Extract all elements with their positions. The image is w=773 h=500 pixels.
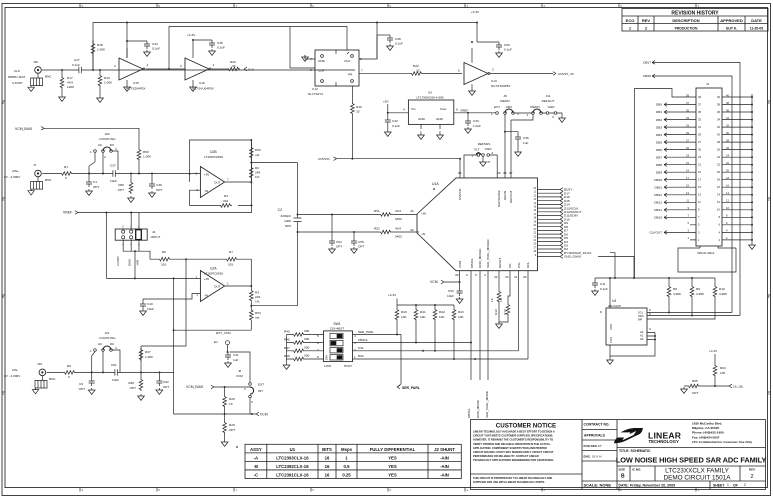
svg-text:R6: R6 [67, 364, 71, 368]
connector J1 [686, 82, 729, 246]
svg-text:VCC: VCC [344, 59, 351, 63]
svg-text:LOW NOISE HIGH SPEED SAR ADC F: LOW NOISE HIGH SPEED SAR ADC FAMILY [616, 456, 767, 465]
svg-text:0: 0 [68, 375, 70, 379]
svg-text:CNVSTL: CNVSTL [318, 157, 330, 161]
capacitor C9 [79, 372, 95, 394]
wire U15 out to U16 [146, 68, 185, 70]
svg-text:R41: R41 [420, 310, 426, 314]
jumper J21 coupling [90, 331, 120, 372]
svg-text:+3.3V: +3.3V [471, 10, 480, 14]
wire RDL pin 30 [527, 271, 529, 359]
svg-text:R22: R22 [413, 64, 419, 68]
svg-text:2: 2 [197, 293, 199, 297]
svg-text:A2: A2 [640, 330, 644, 334]
resistor R5 [158, 250, 171, 267]
svg-text:U1: U1 [290, 447, 296, 452]
svg-text:+5V: +5V [383, 100, 390, 104]
svg-text:DB2: DB2 [656, 118, 662, 122]
resistor R64 [713, 364, 726, 386]
resistor R50 1.00K [137, 148, 152, 174]
svg-text:R50: R50 [143, 150, 149, 154]
svg-text:10uF: 10uF [147, 307, 154, 311]
svg-text:13: 13 [698, 193, 701, 197]
svg-text:CSL: CSL [517, 262, 521, 268]
svg-text:A0: A0 [640, 337, 644, 341]
svg-text:VCM_BIAS: VCM_BIAS [186, 385, 204, 389]
svg-text:DB12: DB12 [654, 193, 662, 197]
svg-text:-A: -A [254, 455, 259, 460]
svg-text:R42: R42 [439, 310, 445, 314]
svg-text:OPT: OPT [79, 387, 85, 391]
svg-text:REFIN: REFIN [500, 99, 509, 103]
svg-text:VCM: VCM [430, 280, 438, 284]
resistor R48 [284, 354, 324, 361]
svg-text:REVISION HISTORY: REVISION HISTORY [671, 10, 719, 16]
svg-text:1206: 1206 [67, 85, 74, 89]
svg-text:AIN+: AIN+ [12, 169, 19, 173]
svg-text:VERIFY PROPER AND RELIABLE OPE: VERIFY PROPER AND RELIABLE OPERATION IN … [473, 442, 551, 446]
net label SER_PARL [397, 338, 401, 387]
svg-text:4: 4 [484, 273, 486, 277]
svg-text:AC: AC [98, 342, 103, 346]
svg-text:C51: C51 [111, 363, 117, 367]
svg-text:33: 33 [698, 118, 701, 122]
svg-text:DEMO CIRCUIT 1501A: DEMO CIRCUIT 1501A [663, 475, 731, 482]
svg-text:10uF: 10uF [112, 378, 119, 382]
svg-text:33: 33 [416, 69, 420, 73]
svg-text:NC7ST04P5X: NC7ST04P5X [491, 84, 510, 88]
svg-text:BNC: BNC [45, 178, 52, 182]
svg-text:TECHNOLOGY APPLICATIONS ENGINE: TECHNOLOGY APPLICATIONS ENGINEERING FOR … [473, 458, 554, 462]
net label CLK [244, 67, 247, 71]
svg-text:DB17: DB17 [643, 61, 651, 65]
svg-text:opt: opt [255, 153, 259, 157]
svg-text:2: 2 [750, 474, 753, 480]
svg-text:C9: C9 [79, 382, 83, 386]
wire U13 out CNVST_33 [490, 73, 553, 75]
svg-text:OPT: OPT [336, 245, 342, 249]
resistor R37 [139, 346, 154, 372]
wire CSL pin 31 [518, 271, 520, 351]
svg-text:CONTRACT NO.: CONTRACT NO. [584, 423, 610, 427]
svg-text:DB6: DB6 [656, 148, 662, 152]
svg-text:24LC025: 24LC025 [608, 304, 621, 308]
svg-text:RDL: RDL [526, 262, 530, 268]
resistor R51 [374, 209, 402, 221]
svg-text:J7: J7 [33, 163, 37, 167]
op-amp U2B LT1807CMS8 [196, 150, 230, 198]
svg-text:PD: PD [508, 263, 512, 268]
ground R17 [59, 95, 66, 101]
svg-text:LT1807CMS8: LT1807CMS8 [204, 155, 223, 159]
svg-text:4: 4 [213, 63, 215, 67]
wire VREF to J2 [78, 205, 252, 278]
capacitor C52 [156, 372, 169, 394]
jumper J11 REFOUT [515, 94, 566, 122]
svg-text:OPT: OPT [692, 391, 698, 395]
svg-text:5: 5 [196, 172, 198, 176]
resistor R28 [223, 387, 235, 414]
connector J16 BNC CLK [8, 60, 52, 91]
jumper J20 coupling [90, 132, 118, 170]
svg-text:R8: R8 [673, 287, 677, 291]
wire +IN line [106, 278, 200, 414]
svg-text:RESET: RESET [498, 258, 502, 268]
jumper J8 REFIN [491, 94, 519, 116]
capacitor C41 [225, 352, 239, 367]
resistor R50 opt feedback [250, 140, 261, 163]
svg-text:SDA: SDA [638, 314, 644, 318]
svg-text:C32: C32 [392, 119, 398, 123]
svg-text:NL17SZ74: NL17SZ74 [308, 92, 323, 96]
svg-text:R19: R19 [104, 76, 110, 80]
svg-text:10uF: 10uF [447, 294, 454, 298]
svg-text:1: 1 [727, 483, 729, 487]
connector J7 BNC AIN+ [4, 163, 52, 195]
wire R53 bottom [174, 329, 252, 331]
svg-text:DB9: DB9 [656, 170, 662, 174]
resistor R06 [118, 174, 135, 203]
svg-text:AIN-: AIN- [12, 368, 18, 372]
svg-text:C54: C54 [336, 240, 342, 244]
svg-text:LTC2391CLX-16: LTC2391CLX-16 [276, 473, 309, 478]
svg-text:-INPUT: -INPUT [150, 235, 160, 239]
ground U12 GND pin [305, 55, 315, 59]
svg-text:REV: REV [749, 468, 755, 472]
svg-text:OPT: OPT [156, 188, 162, 192]
svg-text:+3.3V: +3.3V [709, 349, 718, 353]
svg-text:27: 27 [698, 140, 701, 144]
resistor R43 [452, 305, 464, 359]
EEPROM U4 24LC025 [600, 299, 651, 345]
svg-text:32: 32 [494, 275, 498, 279]
svg-text:C37: C37 [110, 164, 116, 168]
svg-text:OB2CL: OB2CL [358, 338, 368, 342]
svg-text:2: 2 [492, 151, 494, 155]
wire R2 mid to C2 [251, 162, 297, 164]
svg-text:49.9: 49.9 [395, 227, 401, 231]
svg-text:-AIN: -AIN [440, 455, 449, 460]
wire top rail 1 [93, 23, 477, 71]
svg-text:0402: 0402 [395, 235, 402, 239]
svg-text:3: 3 [649, 327, 651, 331]
svg-text:1.00K: 1.00K [145, 355, 154, 359]
svg-text:A1: A1 [640, 334, 644, 338]
resistor R53 [250, 306, 261, 331]
svg-text:R52: R52 [374, 227, 380, 231]
svg-text:INT: INT [258, 389, 263, 393]
svg-text:23: 23 [698, 155, 701, 159]
svg-text:OPT: OPT [358, 245, 364, 249]
svg-text:VSS: VSS [609, 337, 613, 343]
bus ADC data out [538, 190, 561, 257]
svg-text:R06: R06 [118, 183, 124, 187]
svg-text:C55: C55 [358, 240, 364, 244]
svg-text:5: 5 [310, 68, 312, 72]
svg-text:33: 33 [232, 64, 236, 68]
svg-text:C1: C1 [93, 180, 97, 184]
svg-text:LT1790ACS6-4.096: LT1790ACS6-4.096 [416, 96, 443, 100]
svg-text:C11: C11 [600, 282, 606, 286]
svg-text:36: 36 [455, 273, 459, 277]
resistor R13 [499, 297, 510, 322]
svg-text:6: 6 [317, 341, 319, 345]
svg-text:C10: C10 [147, 302, 153, 306]
svg-text:1: 1 [90, 349, 92, 353]
svg-text:HOWEVER, IT REMAINS THE CUSTOM: HOWEVER, IT REMAINS THE CUSTOMER'S RESPO… [473, 438, 553, 442]
svg-text:OPT: OPT [130, 386, 136, 390]
wire VCM_BIAS to R50 [44, 128, 139, 148]
svg-text:R2: R2 [255, 166, 259, 170]
resistor R42 [433, 305, 445, 351]
wire R3 mid to C2 bottom [251, 305, 297, 307]
assembly options table [236, 444, 461, 478]
wire J1 pin39 to CNVST [635, 89, 691, 279]
jumper J6 VCM [230, 352, 265, 414]
resistor R6 [63, 364, 76, 379]
svg-text:OPT: OPT [93, 185, 99, 189]
svg-text:LTC23XXCLX FAMILY: LTC23XXCLX FAMILY [665, 468, 729, 475]
resistor R7 [225, 250, 238, 267]
svg-text:WP: WP [638, 318, 643, 322]
svg-text:R3: R3 [255, 291, 259, 295]
net label 16_18L [729, 384, 732, 388]
svg-text:EXT: EXT [494, 105, 500, 109]
svg-text:U13: U13 [491, 79, 497, 83]
svg-text:DB10: DB10 [654, 178, 662, 182]
svg-text:R49: R49 [356, 105, 362, 109]
svg-text:+3.3V: +3.3V [388, 293, 397, 297]
wire GND_MODE1 pin 5 [479, 271, 481, 380]
svg-text:1%: 1% [255, 300, 260, 304]
connector J18 BNC AIN- [4, 362, 56, 394]
svg-text:OPT: OPT [163, 385, 169, 389]
svg-text:30: 30 [717, 133, 720, 137]
resistor R19 [98, 70, 113, 96]
svg-text:7: 7 [317, 348, 319, 352]
svg-text:BNC: BNC [49, 377, 56, 381]
svg-text:1: 1 [354, 355, 356, 359]
wire U2B out [225, 181, 252, 183]
svg-text:15: 15 [698, 185, 701, 189]
svg-text:OPT: OPT [118, 188, 124, 192]
svg-text:4: 4 [147, 63, 149, 67]
wire R37 top [141, 259, 186, 346]
wire J2 to R5 [123, 240, 225, 278]
svg-text:SER_PARL_MODE: SER_PARL_MODE [485, 391, 489, 418]
svg-text:33: 33 [505, 275, 509, 279]
svg-text:OB2CL: OB2CL [470, 258, 474, 268]
svg-text:*: * [236, 446, 238, 452]
svg-text:GUY K.: GUY K. [726, 26, 738, 30]
resistor R22 [410, 64, 423, 75]
wire SW1 RDL [353, 358, 529, 360]
svg-text:R51: R51 [374, 209, 380, 213]
resistor R3 [250, 286, 261, 306]
wire D1/D0 drop to EEPROM rail [598, 253, 634, 278]
svg-text:16: 16 [325, 455, 330, 460]
wire REFSENSE pin 29 [490, 155, 498, 178]
svg-text:C27: C27 [74, 58, 80, 62]
svg-text:VREF: VREF [460, 109, 468, 113]
wire RESET pin 32 [498, 271, 500, 290]
svg-text:C39: C39 [156, 183, 162, 187]
wire J1 pin1 loop [678, 246, 736, 272]
svg-text:LTC2393CLX-16: LTC2393CLX-16 [276, 455, 309, 460]
svg-text:10: 10 [717, 208, 720, 212]
wire PD pin 33 [508, 271, 510, 303]
svg-text:300: 300 [304, 354, 309, 358]
svg-text:R7: R7 [229, 250, 233, 254]
svg-text:CIRCUIT BOARD LAYOUT MAY SIGNI: CIRCUIT BOARD LAYOUT MAY SIGNIFICANTLY A… [473, 450, 554, 454]
wire J7 FLT to ADC pin 35 [464, 155, 477, 178]
svg-text:32: 32 [717, 125, 720, 129]
svg-text:TITLE: SCHEMATIC: TITLE: SCHEMATIC [619, 449, 651, 453]
svg-text:301: 301 [228, 263, 233, 267]
svg-text:0.1uF: 0.1uF [217, 46, 225, 50]
capacitor C51 [111, 363, 120, 382]
svg-text:-IN: -IN [204, 189, 208, 193]
svg-text:R46: R46 [284, 338, 290, 342]
svg-text:U5: U5 [428, 91, 432, 95]
svg-text:300: 300 [304, 329, 309, 333]
capacitor C34 [127, 41, 160, 56]
wire U2B feedback box [190, 140, 252, 205]
capacitor C38 [377, 35, 403, 50]
svg-text:0.1uF: 0.1uF [504, 48, 512, 52]
switch SW1 219-4MST [317, 322, 356, 368]
svg-text:0.1uF: 0.1uF [600, 287, 608, 291]
svg-text:C53: C53 [448, 289, 454, 293]
resistor R52 [374, 227, 402, 239]
svg-text:BNC: BNC [45, 75, 52, 79]
svg-text:38: 38 [717, 102, 720, 106]
svg-text:1: 1 [90, 150, 92, 154]
svg-text:-C: -C [254, 473, 259, 478]
svg-text:U2B: U2B [210, 150, 217, 154]
svg-text:R48: R48 [284, 354, 290, 358]
svg-text:16: 16 [325, 464, 330, 469]
svg-text:VCM: VCM [458, 261, 462, 268]
svg-text:3: 3 [251, 400, 253, 404]
inverter U16 NC7SVU04P5X [180, 40, 215, 91]
svg-text:1630 McCarthy Blvd.: 1630 McCarthy Blvd. [692, 422, 722, 426]
svg-text:REFIN: REFIN [530, 105, 539, 109]
svg-text:4.99K: 4.99K [696, 292, 705, 296]
terminal E1 EXT_VCM [214, 331, 231, 352]
wire SW1 CSL [353, 350, 519, 352]
capacitor C36 [505, 132, 529, 157]
svg-text:R4: R4 [224, 194, 228, 198]
svg-text:SER_PARL_MODE0: SER_PARL_MODE0 [486, 239, 490, 268]
svg-text:30: 30 [523, 275, 527, 279]
svg-text:0.1uF: 0.1uF [392, 124, 400, 128]
svg-text:GUY H.: GUY H. [592, 455, 602, 459]
svg-text:DB14: DB14 [654, 208, 662, 212]
wire CLK input [42, 69, 355, 71]
svg-text:J20: J20 [105, 132, 110, 136]
svg-text:J18: J18 [37, 362, 42, 366]
svg-text:LTC2392CLX-16: LTC2392CLX-16 [276, 464, 309, 469]
svg-text:OB2CL: OB2CL [467, 408, 471, 418]
svg-text:ENG.: ENG. [584, 455, 592, 459]
svg-text:EXT_VCM: EXT_VCM [216, 331, 231, 335]
svg-text:301: 301 [223, 199, 228, 203]
svg-text:OF: OF [733, 484, 738, 488]
capacitor C50 [477, 42, 512, 57]
svg-text:2: 2 [354, 348, 356, 352]
wire VREF from U5 [454, 112, 496, 114]
svg-text:LT1807CMS8: LT1807CMS8 [204, 272, 223, 276]
svg-text:VCC: VCC [609, 323, 613, 330]
wire PR to R22 to U13 [423, 73, 462, 75]
svg-text:GND: GND [548, 105, 556, 109]
svg-text:43: 43 [410, 209, 414, 213]
svg-text:R43: R43 [458, 310, 464, 314]
svg-text:31: 31 [514, 275, 518, 279]
resistor R65 [684, 379, 729, 395]
header J2 INPUT [115, 226, 160, 247]
svg-text:29: 29 [497, 171, 501, 175]
svg-text:34: 34 [458, 171, 462, 175]
svg-text:VCM: VCM [236, 374, 243, 378]
resistor R45 [284, 329, 324, 336]
svg-text:3: 3 [552, 115, 554, 119]
svg-text:AC: AC [98, 143, 103, 147]
svg-text:24: 24 [717, 155, 720, 159]
svg-text:PRODUCTION: PRODUCTION [675, 26, 698, 30]
svg-text:CSL: CSL [358, 346, 364, 350]
svg-text:J8: J8 [503, 94, 507, 98]
svg-text:GND: GND [418, 117, 426, 121]
svg-text:CNVSTL: CNVSTL [458, 188, 462, 200]
wire EEPROM rail [595, 278, 715, 308]
svg-text:LINEAR TECHNOLOGY HAS MADE A B: LINEAR TECHNOLOGY HAS MADE A BEST EFFORT… [473, 430, 555, 434]
svg-text:3201S-40G1: 3201S-40G1 [697, 251, 715, 255]
svg-text:4.99K: 4.99K [719, 292, 728, 296]
svg-text:Fax: (408)434-0507: Fax: (408)434-0507 [692, 435, 720, 439]
svg-text:25: 25 [698, 148, 701, 152]
svg-text:J2 SHUNT: J2 SHUNT [434, 447, 455, 452]
svg-text:C41: C41 [233, 353, 239, 357]
svg-text:CLKOUT: CLKOUT [649, 231, 662, 235]
svg-text:J11: J11 [546, 94, 551, 98]
svg-text:DB5: DB5 [656, 140, 662, 144]
svg-text:U2A: U2A [210, 267, 217, 271]
svg-text:PR: PR [348, 73, 353, 77]
svg-text:TECHNOLOGY: TECHNOLOGY [649, 439, 679, 444]
svg-text:+3.3V: +3.3V [187, 33, 196, 37]
svg-text:DATE: DATE [751, 18, 762, 23]
svg-text:CNVST_33: CNVST_33 [558, 72, 574, 76]
svg-text:39: 39 [698, 95, 701, 99]
svg-text:OUT: OUT [214, 181, 221, 185]
resistor R17 [60, 70, 74, 95]
svg-text:CLR: CLR [318, 69, 325, 73]
svg-text:18: 18 [717, 178, 720, 182]
svg-text:SW1: SW1 [333, 322, 340, 326]
wire U4 pins [610, 313, 740, 359]
svg-text:DB4: DB4 [656, 133, 662, 137]
svg-text:33: 33 [356, 110, 360, 114]
svg-text:-COUPLING: -COUPLING [98, 336, 116, 340]
svg-text:2200pF: 2200pF [281, 214, 292, 218]
capacitor C27 [72, 58, 84, 73]
svg-text:10K: 10K [720, 371, 726, 375]
wire top rail 2 [169, 27, 347, 70]
svg-text:2: 2 [492, 68, 494, 72]
svg-text:DB15: DB15 [654, 216, 662, 220]
